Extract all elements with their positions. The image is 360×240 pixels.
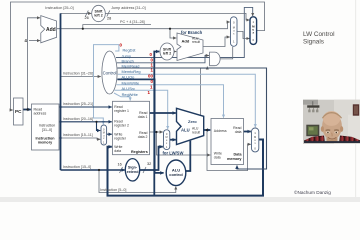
svg-text:data 2: data 2 [138, 135, 148, 139]
svg-text:Shift: Shift [95, 10, 104, 14]
svg-text:register 2: register 2 [114, 124, 129, 128]
svg-text:Read: Read [114, 105, 122, 109]
svg-text:register 1: register 1 [114, 109, 129, 113]
svg-text:Write: Write [114, 145, 122, 149]
svg-text:Address: Address [214, 129, 227, 133]
svg-text:Read: Read [233, 126, 241, 130]
svg-text:ALU: ALU [181, 128, 190, 133]
svg-text:LW Control: LW Control [303, 31, 335, 38]
svg-text:Instruction [31–26]: Instruction [31–26] [63, 72, 93, 76]
svg-text:result: result [192, 130, 200, 134]
svg-text:Jump: Jump [122, 53, 132, 58]
svg-text:PC: PC [15, 109, 22, 114]
svg-text:MemRead: MemRead [122, 64, 140, 69]
svg-text:Add: Add [46, 27, 56, 33]
svg-text:Instruction [20–16]: Instruction [20–16] [63, 117, 93, 121]
svg-text:address: address [34, 111, 47, 115]
svg-text:Instruction [15–0]: Instruction [15–0] [63, 165, 91, 169]
svg-text:ALUOp: ALUOp [122, 75, 135, 80]
svg-text:Signals: Signals [303, 39, 324, 46]
svg-text:Write: Write [214, 152, 222, 156]
svg-text:MemtoReg: MemtoReg [122, 69, 141, 74]
svg-text:Read: Read [34, 107, 43, 111]
svg-text:Zero: Zero [188, 119, 197, 124]
svg-text:data: data [235, 130, 242, 134]
svg-text:Instruction: Instruction [39, 124, 56, 128]
svg-text:Add: Add [182, 39, 190, 44]
svg-text:RegWrite: RegWrite [122, 92, 138, 97]
svg-text:MemWrite: MemWrite [122, 80, 140, 85]
svg-text:Instruction: Instruction [35, 136, 55, 140]
svg-text:Branch: Branch [122, 59, 134, 64]
svg-text:Read: Read [139, 131, 147, 135]
svg-text:Jump address [31–0]: Jump address [31–0] [111, 6, 145, 10]
svg-text:PC + 4 [31–28]: PC + 4 [31–28] [120, 20, 145, 24]
svg-text:Read: Read [114, 120, 122, 124]
svg-text:data 1: data 1 [138, 115, 148, 119]
svg-text:data: data [214, 156, 221, 160]
svg-text:Instruction [25–21]: Instruction [25–21] [63, 102, 93, 106]
svg-text:Sign-: Sign- [128, 166, 138, 170]
svg-text:RegDst: RegDst [123, 48, 137, 53]
svg-text:Control: Control [103, 70, 117, 75]
svg-text:data: data [114, 149, 121, 153]
svg-text:Data: Data [234, 152, 243, 156]
svg-text:Registers: Registers [131, 150, 148, 154]
svg-text:M: M [166, 136, 168, 139]
svg-text:memory: memory [38, 141, 53, 145]
svg-text:28: 28 [107, 17, 111, 21]
svg-text:M: M [103, 132, 105, 135]
svg-text:control: control [169, 172, 183, 177]
svg-text:for Branch: for Branch [181, 30, 203, 35]
svg-text:26: 26 [85, 16, 89, 20]
svg-text:Instruction [5–0]: Instruction [5–0] [100, 188, 126, 192]
svg-text:memory: memory [227, 157, 242, 161]
svg-text:left 2: left 2 [163, 52, 171, 56]
svg-text:32: 32 [147, 162, 151, 166]
svg-text:Write: Write [114, 133, 122, 137]
svg-text:register: register [114, 137, 127, 141]
svg-text:Instruction [15–11]: Instruction [15–11] [63, 133, 93, 137]
svg-text:ALUSrc: ALUSrc [122, 86, 135, 91]
svg-text:result: result [192, 40, 200, 44]
svg-text:16: 16 [118, 163, 122, 167]
svg-text:extend: extend [127, 170, 140, 174]
svg-text:Instruction [25–0]: Instruction [25–0] [45, 6, 73, 10]
svg-text:left 2: left 2 [94, 14, 102, 18]
svg-text:[31–0]: [31–0] [42, 128, 52, 132]
svg-text:Read: Read [139, 111, 147, 115]
svg-text:Shift: Shift [163, 48, 172, 52]
svg-text:©Nachum Danzig: ©Nachum Danzig [294, 189, 331, 195]
svg-text:ALU: ALU [192, 127, 199, 131]
svg-text:00: 00 [148, 73, 153, 78]
svg-text:for LW/SW: for LW/SW [163, 151, 184, 156]
